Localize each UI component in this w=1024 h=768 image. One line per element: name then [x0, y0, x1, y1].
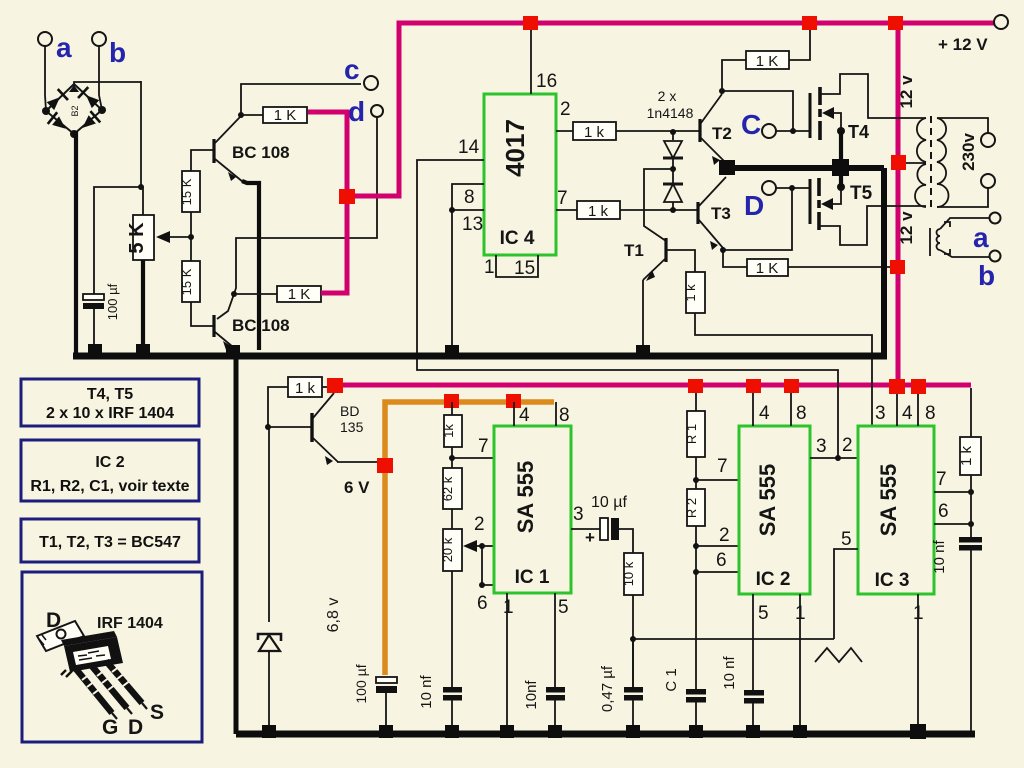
svg-text:2: 2 — [842, 435, 853, 456]
transformer core — [930, 116, 932, 210]
capacitor 10nf (20k) — [418, 674, 462, 727]
svg-text:T3: T3 — [711, 204, 731, 223]
junction dot D line — [789, 185, 795, 191]
terminal C — [741, 109, 776, 140]
svg-text:IC 2: IC 2 — [95, 454, 124, 471]
red square pin4/rail — [889, 379, 905, 394]
svg-text:15 K: 15 K — [179, 268, 194, 295]
svg-text:a: a — [56, 32, 72, 63]
junction dot R1/pin7 — [693, 477, 699, 483]
svg-text:3: 3 — [816, 436, 827, 457]
svg-text:1: 1 — [913, 603, 924, 624]
svg-text:6 V: 6 V — [344, 478, 370, 497]
svg-text:1 K: 1 K — [274, 107, 297, 124]
node red square c/d driver — [339, 189, 355, 204]
resistor 1K upper-left — [241, 107, 307, 124]
wire C to T4 gate — [776, 130, 809, 132]
wire D to T5 gate — [776, 187, 809, 189]
svg-text:IC 1: IC 1 — [515, 567, 550, 588]
svg-text:10 nf: 10 nf — [721, 655, 738, 689]
IC4 pin 2 wire — [556, 130, 573, 132]
svg-text:7: 7 — [557, 188, 568, 209]
svg-text:1 K: 1 K — [756, 260, 779, 277]
terminal b (top-left input) — [92, 32, 126, 68]
wire control voltage line — [633, 638, 834, 640]
red square 6V node — [377, 458, 393, 473]
IC2 pin1 wire — [799, 594, 801, 731]
svg-text:10nf: 10nf — [523, 680, 540, 710]
junction square 0,47uf/bus — [626, 725, 640, 738]
svg-text:5: 5 — [558, 597, 569, 618]
svg-text:6: 6 — [938, 501, 949, 522]
IC4 pin 7 wire — [556, 209, 577, 211]
junction dot wiper/pin2 — [479, 543, 485, 549]
zener diode 6,8v — [258, 427, 281, 727]
svg-text:16: 16 — [536, 71, 557, 92]
junction dot pin6 — [968, 521, 974, 527]
wire junction to 100uf branch — [94, 187, 141, 294]
svg-text:8: 8 — [559, 405, 570, 426]
wire pin7 IC2 — [696, 479, 739, 481]
info box T4 T5 — [21, 379, 199, 426]
svg-text:10 nf: 10 nf — [418, 674, 435, 708]
node square T4/T5 — [832, 159, 849, 176]
svg-text:230v: 230v — [959, 133, 978, 171]
IC3 pin5 wire — [834, 549, 858, 639]
info box IRF1404 package — [22, 572, 202, 742]
IC4 pin 8 wire — [452, 184, 484, 352]
wire 1k left to base/zener — [268, 387, 311, 427]
svg-text:SA 555: SA 555 — [513, 461, 538, 534]
svg-text:+: + — [585, 528, 595, 547]
svg-text:BC 108: BC 108 — [232, 316, 290, 335]
wire BD135 emitter to 6V node — [337, 461, 383, 463]
wire to 1K lower-left — [234, 293, 277, 295]
svg-text:1 k: 1 k — [958, 445, 975, 466]
terminal 230v lower — [981, 174, 995, 188]
junction square 100uf/bus — [88, 344, 102, 357]
IC2 pin5 wire — [752, 594, 754, 690]
svg-text:BD: BD — [340, 403, 359, 419]
junction dot T4 source — [837, 127, 845, 135]
red square pin8 — [784, 379, 799, 393]
wire d to lower BC108 collector — [217, 117, 377, 319]
svg-text:1 K: 1 K — [288, 286, 311, 303]
svg-text:IC 3: IC 3 — [875, 570, 910, 591]
wire 1k to T2 base — [616, 130, 699, 132]
transistor BC108 upper — [214, 117, 290, 182]
svg-text:10 nf: 10 nf — [931, 539, 948, 573]
svg-text:100 µf: 100 µf — [353, 664, 369, 703]
junction square 10nf/bus — [445, 725, 459, 738]
wire a to bridge — [45, 46, 46, 111]
svg-text:3: 3 — [573, 504, 584, 525]
junction dot d line — [231, 291, 237, 297]
svg-text:10 µf: 10 µf — [591, 494, 627, 511]
junction square pin8 net/bus — [445, 345, 459, 358]
wire pin2 IC2 — [696, 545, 739, 547]
capacitor 0,47uf — [599, 639, 643, 727]
svg-text:BC 108: BC 108 — [232, 143, 290, 162]
mosfet T5 — [810, 178, 926, 245]
transistor BC108 lower — [214, 315, 290, 350]
junction dot collector c node — [238, 112, 244, 118]
resistor 1k (T1 base) — [683, 272, 705, 313]
capacitor C1 — [663, 668, 706, 727]
junction dot wiper — [188, 234, 194, 240]
wire T2 collector to 1K — [722, 60, 746, 91]
resistor 1k (BD135) — [288, 377, 335, 397]
potentiometer 20k — [440, 529, 482, 571]
node square T2/T3 — [719, 160, 735, 175]
svg-text:S: S — [150, 701, 164, 724]
IC4 pin 13 wire — [452, 209, 484, 211]
IC2 pin4 wire — [752, 391, 754, 426]
IC3 pin1 wire — [917, 594, 919, 731]
IC1 pin1 wire — [506, 593, 508, 731]
bottom ground bus — [236, 731, 975, 738]
terminal d — [348, 96, 383, 127]
red square 1K/rail — [890, 260, 905, 274]
svg-text:R 2: R 2 — [684, 498, 699, 518]
svg-text:8: 8 — [796, 403, 807, 424]
svg-text:1 k: 1 k — [588, 203, 609, 220]
svg-text:T1, T2, T3 = BC547: T1, T2, T3 = BC547 — [39, 534, 181, 551]
terminal c — [344, 54, 378, 90]
junction dot clock net — [835, 455, 841, 461]
IC2 pin3 wire to IC3 pin2 — [810, 457, 858, 459]
junction dot D1 top — [670, 129, 676, 135]
wire junction to 5K top — [141, 187, 143, 215]
svg-text:1k: 1k — [441, 424, 456, 438]
svg-text:1n4148: 1n4148 — [647, 105, 694, 121]
orange supply wire — [385, 402, 554, 675]
terminal 230v upper — [981, 133, 995, 147]
wire node down to junction — [140, 81, 142, 187]
svg-text:7: 7 — [936, 469, 947, 490]
svg-text:6,8 v: 6,8 v — [325, 598, 342, 633]
wire 1K to +12 rail — [788, 266, 896, 268]
potentiometer 5K — [126, 215, 191, 260]
svg-text:2 x: 2 x — [658, 88, 677, 104]
wire T1 base to 1k — [667, 250, 695, 272]
svg-text:135: 135 — [340, 419, 364, 435]
svg-text:0,47 µf: 0,47 µf — [599, 665, 616, 712]
wire 15K lower to BC108 lower base — [191, 302, 213, 326]
diode D1 1n4148 — [663, 132, 683, 184]
svg-text:100 µf: 100 µf — [105, 283, 120, 320]
svg-text:8: 8 — [464, 187, 475, 208]
junction square zener/bus — [262, 725, 276, 738]
svg-text:1 K: 1 K — [756, 53, 779, 70]
red square pin16/+12 — [523, 16, 538, 30]
junction dot pin8/13 — [449, 207, 455, 213]
junction dot D2 bottom — [670, 207, 676, 213]
IC4 pin 16 wire — [530, 28, 532, 94]
transformer primary 12v+12v winding — [904, 118, 926, 207]
red square orange/1k — [444, 394, 459, 408]
wire 5K bottom to ground bus — [141, 260, 145, 350]
terminal D — [744, 181, 776, 221]
wire 15K up to BC108 base — [191, 150, 213, 171]
label 2x 1n4148 — [647, 88, 694, 121]
junction dot C line — [790, 128, 796, 134]
junction square IC1 pin1/bus — [500, 725, 514, 738]
svg-text:B2: B2 — [70, 105, 80, 116]
junction dot pin7 — [449, 455, 455, 461]
terminal a (output) — [973, 213, 1001, 254]
wire 15K junction — [190, 212, 192, 261]
junction square IC3 pin1/bus — [910, 724, 926, 739]
resistor 10k — [621, 553, 643, 687]
svg-text:6: 6 — [477, 593, 488, 614]
IC3 pin4 wire — [896, 391, 898, 426]
resistor 15K lower — [179, 261, 200, 302]
svg-text:2: 2 — [474, 514, 485, 535]
svg-text:T5: T5 — [850, 183, 873, 204]
wire T2 node to C gate line — [722, 91, 793, 131]
wire 1k to T3 base — [620, 209, 697, 211]
transistor T1 — [624, 238, 666, 281]
wire bridge bottom to ground bus — [74, 131, 78, 356]
svg-text:b: b — [978, 260, 995, 291]
terminal b (output) — [978, 251, 1001, 292]
junction square 5K/bus — [136, 344, 150, 357]
svg-text:G: G — [102, 716, 118, 739]
IC1 pin8 wire — [555, 402, 557, 426]
capacitor 10nf (IC1 pin5) — [523, 680, 565, 727]
wire T1 emitter to bus — [642, 280, 644, 352]
junction dot T2 collector — [719, 88, 725, 94]
svg-text:SA 555: SA 555 — [755, 464, 780, 537]
IC1 pin5 wire — [554, 593, 556, 687]
wire bridge top corner to node — [74, 82, 141, 84]
red square rail corner — [888, 16, 903, 30]
wire 20k bottom to 10nf — [451, 571, 453, 687]
svg-text:R 1: R 1 — [684, 424, 699, 444]
resistor 1K lower-left — [277, 286, 321, 303]
svg-text:IRF 1404: IRF 1404 — [97, 615, 163, 632]
IC3 pin8 wire — [917, 391, 919, 426]
wire wiper to pins 2/6 — [482, 546, 494, 585]
thick center node wire — [727, 168, 884, 356]
wire 10uf to 10k — [619, 529, 633, 553]
wire 1K to +12 red square — [789, 28, 810, 60]
resistor 62k — [440, 468, 462, 529]
capacitor 100uf (top-left) — [83, 283, 120, 320]
svg-text:15 K: 15 K — [179, 178, 194, 205]
IC4 4017 green box — [484, 94, 556, 255]
red square BD135 collector / magenta start — [327, 378, 343, 393]
wire D junction line — [723, 187, 792, 250]
resistor 15K upper — [179, 171, 200, 212]
svg-text:D: D — [744, 190, 764, 221]
svg-text:R1, R2, C1, voir texte: R1, R2, C1, voir texte — [30, 478, 189, 495]
svg-text:5: 5 — [841, 529, 852, 550]
svg-text:10 k: 10 k — [621, 561, 636, 586]
red square R1/supply — [688, 379, 703, 393]
junction dot diodes mid — [670, 166, 676, 172]
junction dot pin7 — [968, 489, 974, 495]
resistor 1k (right) — [958, 388, 981, 537]
svg-text:T4, T5: T4, T5 — [87, 386, 133, 403]
svg-text:5 K: 5 K — [126, 222, 148, 254]
svg-text:C: C — [741, 109, 761, 140]
svg-text:+ 12 V: + 12 V — [938, 35, 988, 54]
IC3 SA555 green box — [858, 426, 934, 594]
junction dot pin6 — [693, 569, 699, 575]
resistor 1K top-right — [746, 51, 789, 70]
svg-text:1: 1 — [503, 597, 514, 618]
IC4 pin 14 wire to IC2 pin3 net — [417, 160, 838, 458]
resistor R1 — [684, 391, 705, 489]
svg-text:4: 4 — [759, 403, 770, 424]
terminal +12V — [938, 15, 1008, 54]
svg-text:2: 2 — [719, 525, 730, 546]
svg-text:12 v: 12 v — [897, 75, 916, 109]
aux feedback winding — [930, 218, 989, 257]
svg-text:62 k: 62 k — [440, 476, 455, 501]
svg-text:15: 15 — [514, 258, 535, 279]
wire pin7 IC1 — [452, 457, 494, 459]
mosfet T4 — [810, 74, 926, 142]
red square pin4 — [746, 379, 761, 393]
wire diodes mid to T1 collector — [644, 169, 673, 241]
svg-text:7: 7 — [478, 436, 489, 457]
svg-text:T1: T1 — [624, 241, 644, 260]
svg-text:2 x 10 x IRF 1404: 2 x 10 x IRF 1404 — [46, 405, 174, 422]
svg-text:T4: T4 — [848, 122, 869, 142]
diode D2 1n4148 — [663, 184, 683, 210]
svg-text:1 k: 1 k — [683, 284, 698, 302]
svg-text:C 1: C 1 — [663, 668, 680, 691]
resistor 1k (4017 pin2) — [573, 122, 616, 141]
svg-text:4017: 4017 — [500, 119, 530, 177]
svg-text:1 k: 1 k — [584, 124, 605, 141]
red square pin8 — [911, 379, 926, 394]
junction dot 10k/0.47uf — [630, 636, 636, 642]
svg-text:a: a — [973, 222, 989, 253]
capacitor 10nf (IC2 pin5) — [721, 655, 764, 727]
info box IC2 — [21, 440, 199, 501]
svg-text:4: 4 — [519, 405, 530, 426]
transformer secondary 230v — [937, 118, 988, 207]
svg-text:8: 8 — [925, 403, 936, 424]
svg-text:IC 4: IC 4 — [500, 228, 535, 249]
svg-text:SA 555: SA 555 — [876, 464, 901, 537]
svg-text:1 k: 1 k — [295, 380, 316, 397]
capacitor 10nf (right) — [931, 537, 982, 731]
junction dot R2/pin2 — [693, 543, 699, 549]
svg-text:4: 4 — [902, 403, 913, 424]
transistor T3 — [698, 177, 726, 250]
svg-text:1: 1 — [484, 257, 495, 278]
junction dot pin6 — [479, 582, 485, 588]
wire 100uf to ground bus — [93, 309, 95, 350]
red square center tap — [891, 155, 906, 170]
svg-text:d: d — [348, 96, 365, 127]
IC2 pin8 wire — [790, 391, 792, 426]
IC3 pin7 wire — [934, 491, 971, 493]
wire b to bridge — [99, 46, 102, 110]
junction square lower emitter/bus — [226, 345, 240, 358]
svg-text:2: 2 — [560, 99, 571, 120]
IC3 pin6 wire — [934, 523, 971, 525]
junction dot base — [265, 424, 271, 430]
resistor 1k (4017 pin7) — [577, 201, 620, 220]
thick wire T4 source to node — [839, 131, 843, 168]
wire pin6 IC2 — [696, 571, 739, 573]
wire BC108 emitter to ground (thick) — [242, 181, 259, 350]
IC2 SA555 green box — [739, 426, 810, 594]
svg-text:14: 14 — [458, 137, 480, 158]
junction square 10nf2/bus — [548, 725, 562, 738]
capacitor 100uf (orange) — [353, 664, 397, 727]
junction square pin1/bus — [793, 725, 807, 738]
svg-text:5: 5 — [758, 603, 769, 624]
junction square 100uf/bus — [379, 725, 393, 738]
svg-text:b: b — [109, 37, 126, 68]
IC1 pin3 wire — [571, 528, 600, 530]
junction square T1/bus — [636, 345, 650, 358]
junction dot T3 emitter — [720, 247, 726, 253]
svg-text:13: 13 — [462, 214, 483, 235]
magenta wire 1K-c to node — [308, 112, 347, 293]
resistor 1K right (T3 emitter) — [747, 259, 788, 277]
wire T3 emitter/D node — [723, 248, 747, 267]
svg-text:20 k: 20 k — [440, 537, 455, 562]
svg-text:6: 6 — [716, 550, 727, 571]
wire c terminal line — [241, 84, 361, 115]
terminal a (top-left input) — [38, 32, 72, 63]
wire R2 node to C1 — [695, 572, 697, 689]
junction square C1/bus — [689, 725, 703, 738]
svg-text:IC 2: IC 2 — [756, 569, 791, 590]
resistor 1k (IC1 pin7 chain) — [441, 402, 462, 468]
left section vertical ground — [234, 352, 239, 734]
svg-text:T2: T2 — [712, 124, 732, 143]
resistor R2 — [684, 489, 705, 572]
svg-text:1: 1 — [795, 603, 806, 624]
transistor BD135 — [312, 393, 364, 465]
triangle wave symbol — [815, 648, 862, 662]
main ground bus top — [73, 353, 887, 360]
IC1 SA555 green box — [494, 426, 571, 593]
junction square 10nf/bus — [746, 725, 760, 738]
svg-text:3: 3 — [875, 403, 886, 424]
wire pin2 IC1 — [482, 545, 494, 547]
svg-text:c: c — [344, 54, 360, 85]
svg-text:D: D — [128, 716, 143, 739]
bridge rectifier B2 — [42, 84, 106, 138]
IC1 pin4 wire — [513, 402, 515, 426]
capacitor 10uf — [585, 494, 627, 547]
red square orange/pin4 — [506, 394, 521, 408]
magenta wire node to +12 top bus — [347, 23, 994, 196]
magenta +12 rail right vertical — [896, 23, 901, 385]
red square 1K/+12 bus — [802, 16, 817, 30]
svg-text:7: 7 — [717, 456, 728, 477]
transistor T2 — [700, 94, 726, 165]
junction dot T5 source — [837, 183, 845, 191]
wire 1k to IC3 pin3 — [695, 313, 872, 426]
IC4 pins 1-15 strap — [496, 255, 538, 277]
node junction dot — [138, 184, 144, 190]
svg-text:12 v: 12 v — [897, 211, 916, 245]
thick wire T5 source to node — [839, 168, 843, 187]
info box T1 T2 T3 — [21, 519, 199, 562]
magenta bottom supply bus — [340, 383, 971, 388]
